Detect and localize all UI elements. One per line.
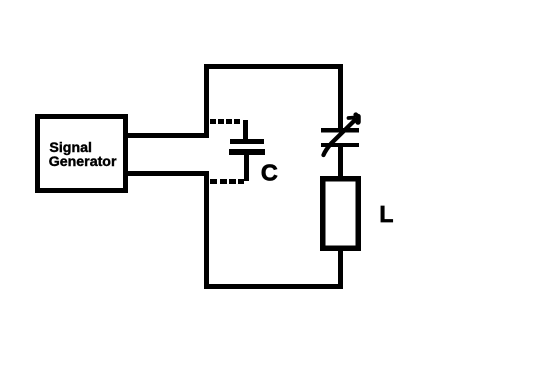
svg-text:Generator: Generator bbox=[49, 154, 117, 170]
wire: loop bottom side bbox=[204, 284, 343, 289]
wire: variable capacitor to inductor bbox=[338, 147, 343, 176]
dashed wire: capacitor C bottom to loop left bbox=[210, 179, 244, 184]
label L bbox=[379, 201, 393, 227]
wire: loop top side bbox=[204, 64, 343, 69]
wire: loop left side upper segment bbox=[204, 64, 209, 138]
wire: loop right side upper segment bbox=[338, 64, 343, 130]
wire: inductor to loop bottom bbox=[338, 251, 343, 289]
wire: generator top output to loop left bbox=[123, 133, 209, 138]
capacitor C bbox=[229, 120, 265, 181]
signal generator box bbox=[38, 117, 126, 191]
wire: generator bottom output to loop left bbox=[123, 171, 209, 176]
variable capacitor (tuning) bbox=[321, 112, 359, 155]
label: Signal Generator bbox=[49, 140, 117, 170]
dashed wire: loop left to capacitor C top bbox=[210, 119, 240, 124]
svg-text:L: L bbox=[379, 201, 393, 227]
wire: loop left side lower segment bbox=[204, 171, 209, 289]
svg-text:C: C bbox=[261, 160, 278, 186]
inductor L (rectangle symbol) bbox=[323, 179, 359, 249]
label C bbox=[261, 160, 278, 186]
